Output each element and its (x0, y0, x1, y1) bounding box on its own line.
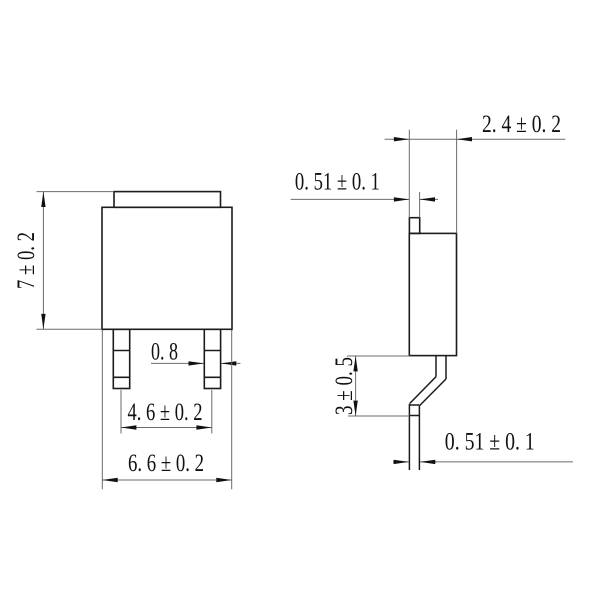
dimension 6.6 ± 0.2 (body width) (102, 330, 231, 489)
front view left lead (113, 329, 129, 388)
svg-text:2. 4 ± 0. 2: 2. 4 ± 0. 2 (482, 111, 561, 138)
svg-text:0. 8: 0. 8 (151, 338, 178, 365)
dimension 0.8 (lead width) (151, 362, 240, 364)
dimension 0.51 ± 0.1 (tab thickness, top) (291, 192, 438, 218)
front view right lead (204, 329, 220, 388)
front view tab (top heatsink tab) (114, 192, 221, 208)
dimension 0.51 ± 0.1 (lead thickness, bottom) (393, 461, 573, 463)
front view body (102, 207, 232, 329)
svg-text:3 ± 0. 5: 3 ± 0. 5 (331, 357, 358, 415)
side view tab (409, 218, 419, 234)
svg-text:4. 6 ± 0. 2: 4. 6 ± 0. 2 (128, 399, 203, 426)
svg-text:0. 51 ± 0. 1: 0. 51 ± 0. 1 (445, 428, 535, 455)
dimension 7 ± 0.2 (front view height) (37, 192, 115, 330)
dimension 2.4 ± 0.2 (body thickness) (385, 130, 566, 234)
svg-text:0. 51 ± 0. 1: 0. 51 ± 0. 1 (295, 168, 380, 195)
side view lead (bent gull lead) (409, 356, 446, 470)
dimension 3 ± 0.5 (stand-off height) (347, 356, 409, 416)
side view body (409, 233, 456, 355)
svg-text:7 ± 0. 2: 7 ± 0. 2 (13, 232, 40, 289)
svg-text:6. 6 ± 0. 2: 6. 6 ± 0. 2 (128, 450, 204, 477)
dimension 4.6 ± 0.2 (lead pitch) (121, 390, 212, 434)
